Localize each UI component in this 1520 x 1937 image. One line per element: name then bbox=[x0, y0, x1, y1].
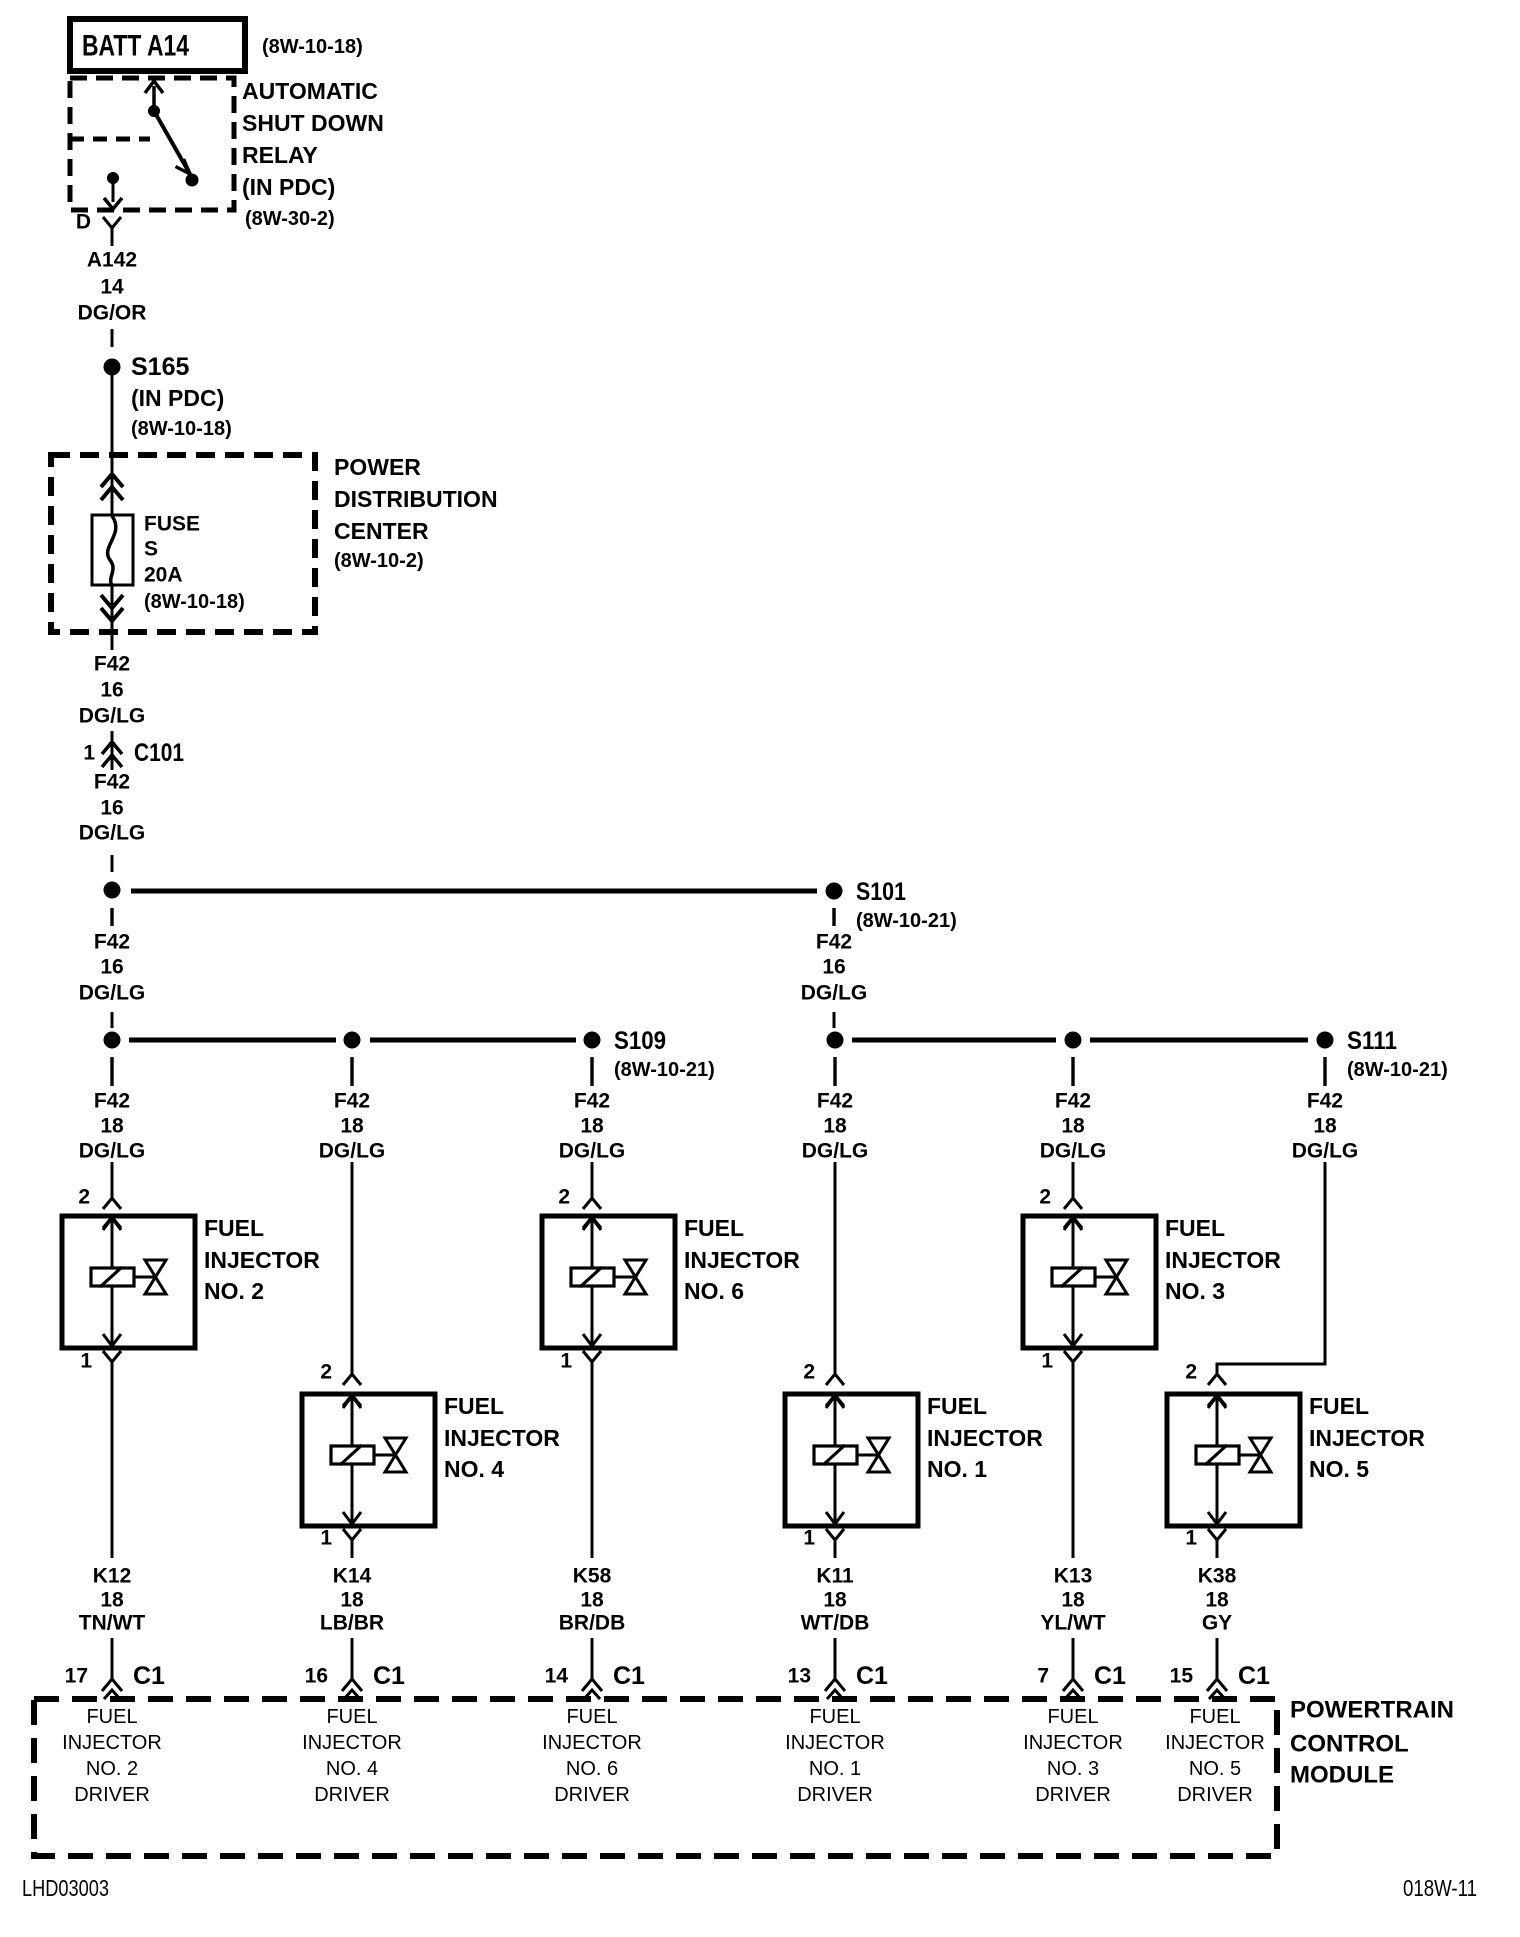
fuel injector No.4 box bbox=[302, 1394, 435, 1526]
svg-text:FUEL: FUEL bbox=[1189, 1706, 1240, 1728]
wire K13 18 YL/WT label bbox=[1040, 1565, 1105, 1635]
svg-text:18: 18 bbox=[823, 1115, 847, 1138]
svg-text:DG/LG: DG/LG bbox=[1040, 1140, 1107, 1163]
svg-text:D: D bbox=[76, 211, 91, 234]
svg-text:F42: F42 bbox=[574, 1090, 610, 1113]
pin 1 connector bbox=[1208, 1529, 1226, 1558]
svg-text:18: 18 bbox=[100, 1115, 124, 1138]
fuel injector No.2 box bbox=[62, 1216, 195, 1348]
wire F42 18 DG/LG label column 1 bbox=[79, 1090, 146, 1163]
fuel injector 2 label bbox=[204, 1215, 320, 1304]
svg-text:NO. 5: NO. 5 bbox=[1189, 1758, 1241, 1780]
svg-text:(8W-10-21): (8W-10-21) bbox=[856, 910, 957, 932]
wire dash above junction bbox=[111, 855, 114, 872]
junction node row 2 left B bbox=[344, 1032, 361, 1049]
svg-text:(8W-10-21): (8W-10-21) bbox=[1347, 1059, 1448, 1081]
svg-text:C101: C101 bbox=[134, 739, 184, 767]
fuel injector 3 label bbox=[1165, 1215, 1281, 1304]
svg-text:DRIVER: DRIVER bbox=[1035, 1784, 1111, 1806]
svg-text:CENTER: CENTER bbox=[334, 518, 429, 544]
splice S101 bbox=[826, 883, 843, 900]
svg-text:INJECTOR: INJECTOR bbox=[542, 1732, 642, 1754]
PCM driver label fuel injector No.5 bbox=[1165, 1706, 1265, 1806]
svg-text:F42: F42 bbox=[816, 931, 852, 954]
svg-text:FUEL: FUEL bbox=[326, 1706, 377, 1728]
svg-text:1: 1 bbox=[1041, 1350, 1053, 1373]
svg-text:(8W-10-18): (8W-10-18) bbox=[131, 418, 232, 440]
connector C101 pin 1 bbox=[83, 731, 184, 770]
svg-text:MODULE: MODULE bbox=[1290, 1762, 1394, 1789]
splice S165 bbox=[104, 359, 121, 376]
svg-text:18: 18 bbox=[100, 1589, 124, 1612]
svg-text:INJECTOR: INJECTOR bbox=[444, 1425, 560, 1451]
junction node row 2 right B bbox=[1065, 1032, 1082, 1049]
svg-text:2: 2 bbox=[1185, 1361, 1197, 1384]
svg-text:DRIVER: DRIVER bbox=[1177, 1784, 1253, 1806]
svg-text:FUEL: FUEL bbox=[927, 1393, 987, 1419]
svg-text:DG/LG: DG/LG bbox=[79, 822, 146, 845]
wire F42 18 DG/LG label column 4 bbox=[802, 1090, 869, 1163]
svg-text:DG/LG: DG/LG bbox=[801, 982, 868, 1005]
svg-text:2: 2 bbox=[803, 1361, 815, 1384]
svg-text:S: S bbox=[144, 538, 158, 561]
svg-text:1: 1 bbox=[560, 1350, 572, 1373]
wire dash above splice S165 bbox=[111, 329, 114, 347]
wire drop column 4 bbox=[833, 1057, 836, 1086]
wire to injector No.6 bbox=[591, 1162, 594, 1198]
svg-text:DISTRIBUTION: DISTRIBUTION bbox=[334, 486, 498, 512]
fuel injector No.3 box bbox=[1023, 1216, 1156, 1348]
svg-text:DG/LG: DG/LG bbox=[559, 1140, 626, 1163]
connector C1 pin 17 bbox=[65, 1638, 165, 1699]
relay output contact node bbox=[107, 172, 119, 184]
splice S101 labels bbox=[856, 878, 957, 932]
svg-text:FUEL: FUEL bbox=[86, 1706, 137, 1728]
svg-text:FUEL: FUEL bbox=[444, 1393, 504, 1419]
svg-text:DRIVER: DRIVER bbox=[797, 1784, 873, 1806]
svg-text:FUEL: FUEL bbox=[1047, 1706, 1098, 1728]
svg-text:F42: F42 bbox=[1307, 1090, 1343, 1113]
svg-text:NO. 4: NO. 4 bbox=[326, 1758, 378, 1780]
svg-text:NO. 2: NO. 2 bbox=[204, 1278, 264, 1304]
pin 2 connector bbox=[1208, 1374, 1226, 1406]
svg-text:FUEL: FUEL bbox=[1165, 1215, 1225, 1241]
relay switch arm bbox=[154, 111, 190, 174]
svg-text:A142: A142 bbox=[87, 249, 137, 272]
wire F42 18 DG/LG label column 3 bbox=[559, 1090, 626, 1163]
svg-text:F42: F42 bbox=[94, 931, 130, 954]
wire drop column 5 bbox=[1071, 1057, 1074, 1086]
svg-text:C1: C1 bbox=[373, 1662, 405, 1690]
svg-text:18: 18 bbox=[340, 1589, 364, 1612]
svg-text:LHD03003: LHD03003 bbox=[22, 1875, 109, 1901]
svg-text:C1: C1 bbox=[1238, 1662, 1270, 1690]
fuse labels FUSE S 20A bbox=[144, 513, 245, 614]
svg-text:NO. 1: NO. 1 bbox=[809, 1758, 861, 1780]
svg-text:F42: F42 bbox=[94, 771, 130, 794]
wire A142 14 DG/OR label bbox=[78, 249, 147, 325]
relay internal partition line bbox=[70, 137, 150, 142]
svg-text:DG/OR: DG/OR bbox=[78, 302, 147, 325]
svg-text:18: 18 bbox=[1061, 1115, 1085, 1138]
svg-text:NO. 1: NO. 1 bbox=[927, 1456, 987, 1482]
splice S111 labels bbox=[1347, 1027, 1448, 1081]
wire K14 18 LB/BR label bbox=[320, 1565, 384, 1635]
svg-text:DG/LG: DG/LG bbox=[1292, 1140, 1359, 1163]
pin 1 connector bbox=[103, 1351, 121, 1558]
svg-text:FUSE: FUSE bbox=[144, 513, 200, 536]
svg-text:YL/WT: YL/WT bbox=[1040, 1612, 1105, 1635]
svg-text:DRIVER: DRIVER bbox=[554, 1784, 630, 1806]
svg-text:18: 18 bbox=[580, 1589, 604, 1612]
svg-text:INJECTOR: INJECTOR bbox=[785, 1732, 885, 1754]
PCM dashed box bbox=[34, 1699, 1277, 1856]
pin 1 connector bbox=[1064, 1351, 1082, 1558]
wire dash below S101 bbox=[832, 908, 835, 926]
svg-text:S165: S165 bbox=[131, 353, 189, 381]
power feed box BATT A14 bbox=[70, 19, 245, 71]
svg-text:BATT A14: BATT A14 bbox=[82, 30, 189, 63]
fuel injector No.1 box bbox=[785, 1394, 918, 1526]
svg-text:20A: 20A bbox=[144, 564, 183, 587]
svg-text:C1: C1 bbox=[133, 1662, 165, 1690]
splice S111 bbox=[1317, 1032, 1334, 1049]
pin 2 connector bbox=[826, 1374, 844, 1406]
svg-text:(IN PDC): (IN PDC) bbox=[242, 174, 335, 200]
svg-text:NO. 6: NO. 6 bbox=[566, 1758, 618, 1780]
svg-text:7: 7 bbox=[1037, 1665, 1049, 1688]
connector C1 pin 16 bbox=[305, 1638, 405, 1699]
svg-text:18: 18 bbox=[1205, 1589, 1229, 1612]
svg-text:18: 18 bbox=[1061, 1589, 1085, 1612]
svg-text:DRIVER: DRIVER bbox=[74, 1784, 150, 1806]
relay output pin wire and arrow bbox=[104, 183, 122, 209]
fuel injector 1 label bbox=[927, 1393, 1043, 1482]
junction node row 2 right A bbox=[827, 1032, 844, 1049]
svg-text:AUTOMATIC: AUTOMATIC bbox=[242, 78, 378, 104]
svg-text:FUEL: FUEL bbox=[809, 1706, 860, 1728]
svg-text:2: 2 bbox=[78, 1186, 90, 1209]
wire F42 18 DG/LG label column 2 bbox=[319, 1090, 386, 1163]
svg-text:(8W-10-18): (8W-10-18) bbox=[262, 36, 363, 58]
connector C1 pin 7 bbox=[1037, 1638, 1126, 1699]
wire K58 18 BR/DB label bbox=[559, 1565, 626, 1635]
svg-text:C1: C1 bbox=[1094, 1662, 1126, 1690]
svg-text:LB/BR: LB/BR bbox=[320, 1612, 384, 1635]
svg-text:018W-11: 018W-11 bbox=[1403, 1875, 1477, 1901]
wire F42 18 DG/LG label column 6 bbox=[1292, 1090, 1359, 1163]
wire drop column 3 bbox=[590, 1057, 593, 1086]
svg-text:DG/LG: DG/LG bbox=[79, 982, 146, 1005]
svg-text:INJECTOR: INJECTOR bbox=[1165, 1732, 1265, 1754]
wire F42 18 DG/LG label column 5 bbox=[1040, 1090, 1107, 1163]
svg-text:18: 18 bbox=[1313, 1115, 1337, 1138]
svg-text:F42: F42 bbox=[1055, 1090, 1091, 1113]
svg-text:S111: S111 bbox=[1347, 1027, 1397, 1055]
svg-text:INJECTOR: INJECTOR bbox=[302, 1732, 402, 1754]
wire row 1 bus to S101 bbox=[131, 889, 817, 894]
svg-text:14: 14 bbox=[100, 276, 124, 299]
connector half below relay pin D bbox=[103, 217, 121, 246]
svg-text:K58: K58 bbox=[573, 1565, 612, 1588]
svg-text:WT/DB: WT/DB bbox=[801, 1612, 870, 1635]
relay switch pivot node bbox=[148, 105, 160, 117]
svg-text:F42: F42 bbox=[334, 1090, 370, 1113]
wire F42 16 DG/LG label right drop bbox=[801, 931, 868, 1005]
svg-text:1: 1 bbox=[320, 1527, 332, 1550]
relay ASD dashed box bbox=[70, 78, 234, 210]
svg-text:F42: F42 bbox=[817, 1090, 853, 1113]
svg-text:NO. 6: NO. 6 bbox=[684, 1278, 744, 1304]
svg-text:18: 18 bbox=[340, 1115, 364, 1138]
svg-text:(8W-10-21): (8W-10-21) bbox=[614, 1059, 715, 1081]
junction node left of row 1 bbox=[104, 882, 121, 899]
connector C1 pin 14 bbox=[545, 1638, 645, 1699]
wire to injector No.2 bbox=[111, 1162, 114, 1198]
wire to injector No.4 bbox=[351, 1162, 354, 1374]
svg-text:INJECTOR: INJECTOR bbox=[927, 1425, 1043, 1451]
svg-text:POWER: POWER bbox=[334, 454, 421, 480]
splice S109 bbox=[584, 1032, 601, 1049]
wire K38 18 GY label bbox=[1198, 1565, 1237, 1635]
wire row 2 right bus segment B bbox=[1090, 1038, 1308, 1043]
svg-text:2: 2 bbox=[1039, 1186, 1051, 1209]
relay label AUTOMATIC SHUT DOWN RELAY (IN PDC) bbox=[242, 78, 384, 230]
pin 1 connector bbox=[826, 1529, 844, 1558]
wire F42 16 DG/LG label above C101 bbox=[79, 653, 146, 728]
PDC output connector double chevron bbox=[101, 585, 123, 650]
svg-text:14: 14 bbox=[545, 1665, 569, 1688]
svg-text:(8W-10-2): (8W-10-2) bbox=[334, 550, 424, 572]
svg-text:15: 15 bbox=[1170, 1665, 1194, 1688]
wire dash above row 2 right bbox=[833, 1012, 836, 1028]
svg-text:F42: F42 bbox=[94, 653, 130, 676]
pin 2 connector bbox=[103, 1198, 121, 1228]
svg-text:(IN PDC): (IN PDC) bbox=[131, 385, 224, 411]
svg-text:POWERTRAIN: POWERTRAIN bbox=[1290, 1697, 1454, 1724]
fuel injector No.5 box bbox=[1167, 1394, 1300, 1526]
svg-text:C1: C1 bbox=[613, 1662, 645, 1690]
svg-text:INJECTOR: INJECTOR bbox=[62, 1732, 162, 1754]
svg-text:INJECTOR: INJECTOR bbox=[1309, 1425, 1425, 1451]
PDC dashed box bbox=[51, 455, 315, 632]
svg-text:K12: K12 bbox=[93, 1565, 132, 1588]
svg-text:17: 17 bbox=[65, 1665, 88, 1688]
svg-text:NO. 2: NO. 2 bbox=[86, 1758, 138, 1780]
fuse S 20A in PDC bbox=[92, 515, 133, 585]
wire from S165 to PDC bbox=[111, 375, 114, 456]
wire drop column 2 bbox=[350, 1057, 353, 1086]
wire dash below left junction bbox=[110, 908, 113, 926]
svg-text:BR/DB: BR/DB bbox=[559, 1612, 626, 1635]
splice S109 labels bbox=[614, 1027, 715, 1081]
svg-text:DG/LG: DG/LG bbox=[319, 1140, 386, 1163]
svg-text:INJECTOR: INJECTOR bbox=[684, 1247, 800, 1273]
svg-text:16: 16 bbox=[305, 1665, 328, 1688]
PDC label POWER DISTRIBUTION CENTER bbox=[334, 454, 498, 572]
svg-text:NO. 3: NO. 3 bbox=[1047, 1758, 1099, 1780]
svg-text:2: 2 bbox=[558, 1186, 570, 1209]
svg-text:SHUT DOWN: SHUT DOWN bbox=[242, 110, 384, 136]
svg-text:TN/WT: TN/WT bbox=[79, 1612, 146, 1635]
svg-text:C1: C1 bbox=[856, 1662, 888, 1690]
svg-text:2: 2 bbox=[320, 1361, 332, 1384]
svg-text:K38: K38 bbox=[1198, 1565, 1237, 1588]
svg-text:FUEL: FUEL bbox=[1309, 1393, 1369, 1419]
svg-text:K11: K11 bbox=[816, 1565, 854, 1588]
wire K11 18 WT/DB label bbox=[801, 1565, 870, 1635]
svg-text:S101: S101 bbox=[856, 878, 906, 906]
wire F42 16 DG/LG label below C101 bbox=[79, 771, 146, 845]
svg-text:16: 16 bbox=[100, 679, 123, 702]
svg-text:K13: K13 bbox=[1054, 1565, 1093, 1588]
wire F42 16 DG/LG label left drop bbox=[79, 931, 146, 1005]
svg-text:DG/LG: DG/LG bbox=[802, 1140, 869, 1163]
wire row 2 right bus segment A bbox=[852, 1038, 1056, 1043]
splice S165 labels bbox=[131, 353, 232, 440]
svg-text:1: 1 bbox=[1185, 1527, 1197, 1550]
svg-text:CONTROL: CONTROL bbox=[1290, 1731, 1409, 1758]
svg-text:DG/LG: DG/LG bbox=[79, 705, 146, 728]
pin 1 connector bbox=[343, 1529, 361, 1558]
connector C1 pin 15 bbox=[1170, 1638, 1270, 1699]
svg-text:16: 16 bbox=[100, 956, 123, 979]
pin 2 connector bbox=[583, 1198, 601, 1228]
svg-text:INJECTOR: INJECTOR bbox=[1165, 1247, 1281, 1273]
PDC input connector double chevron bbox=[101, 456, 123, 516]
PCM driver label fuel injector No.4 bbox=[302, 1706, 402, 1806]
wire dash above row 2 left bbox=[111, 1012, 114, 1028]
svg-text:18: 18 bbox=[580, 1115, 604, 1138]
svg-text:DRIVER: DRIVER bbox=[314, 1784, 390, 1806]
svg-text:16: 16 bbox=[100, 797, 123, 820]
svg-text:16: 16 bbox=[822, 956, 845, 979]
pin 1 connector bbox=[583, 1351, 601, 1558]
wire row 2 left bus segment A bbox=[129, 1038, 336, 1043]
svg-text:RELAY: RELAY bbox=[242, 142, 318, 168]
pin 2 connector bbox=[343, 1374, 361, 1406]
pin 2 connector bbox=[1064, 1198, 1082, 1228]
svg-text:F42: F42 bbox=[94, 1090, 130, 1113]
PCM driver label fuel injector No.1 bbox=[785, 1706, 885, 1806]
PCM driver label fuel injector No.6 bbox=[542, 1706, 642, 1806]
svg-text:NO. 4: NO. 4 bbox=[444, 1456, 504, 1482]
svg-text:INJECTOR: INJECTOR bbox=[204, 1247, 320, 1273]
wire jog to injector No.5 bbox=[1217, 1162, 1325, 1374]
svg-text:FUEL: FUEL bbox=[566, 1706, 617, 1728]
svg-text:DG/LG: DG/LG bbox=[79, 1140, 146, 1163]
fuel injector 4 label bbox=[444, 1393, 560, 1482]
PCM driver label fuel injector No.3 bbox=[1023, 1706, 1123, 1806]
fuel injector 5 label bbox=[1309, 1393, 1425, 1482]
svg-text:GY: GY bbox=[1202, 1612, 1232, 1635]
wire drop column 1 bbox=[110, 1057, 113, 1086]
svg-text:18: 18 bbox=[823, 1589, 847, 1612]
wire to injector No.1 bbox=[834, 1162, 837, 1374]
PCM label POWERTRAIN CONTROL MODULE bbox=[1290, 1697, 1454, 1789]
svg-text:(8W-30-2): (8W-30-2) bbox=[245, 208, 335, 230]
wire row 2 left bus segment B bbox=[370, 1038, 576, 1043]
wire K12 18 TN/WT label bbox=[79, 1565, 146, 1635]
svg-text:S109: S109 bbox=[614, 1027, 666, 1055]
svg-text:1: 1 bbox=[80, 1350, 92, 1373]
svg-text:(8W-10-18): (8W-10-18) bbox=[144, 591, 245, 613]
wire to injector No.3 bbox=[1072, 1162, 1075, 1198]
relay switch common pin arrow to BATT bbox=[145, 81, 163, 111]
wire drop column 6 bbox=[1323, 1057, 1326, 1086]
svg-text:FUEL: FUEL bbox=[204, 1215, 264, 1241]
PCM driver label fuel injector No.2 bbox=[62, 1706, 162, 1806]
svg-text:K14: K14 bbox=[333, 1565, 372, 1588]
svg-text:INJECTOR: INJECTOR bbox=[1023, 1732, 1123, 1754]
svg-text:NO. 5: NO. 5 bbox=[1309, 1456, 1369, 1482]
connector C1 pin 13 bbox=[788, 1638, 888, 1699]
svg-text:1: 1 bbox=[803, 1527, 815, 1550]
svg-text:FUEL: FUEL bbox=[684, 1215, 744, 1241]
fuel injector 6 label bbox=[684, 1215, 800, 1304]
fuel injector No.6 box bbox=[542, 1216, 675, 1348]
relay switch contact node bbox=[186, 174, 199, 187]
svg-text:NO. 3: NO. 3 bbox=[1165, 1278, 1225, 1304]
svg-text:13: 13 bbox=[788, 1665, 811, 1688]
svg-text:1: 1 bbox=[83, 742, 95, 765]
junction node row 2 left A bbox=[104, 1032, 121, 1049]
